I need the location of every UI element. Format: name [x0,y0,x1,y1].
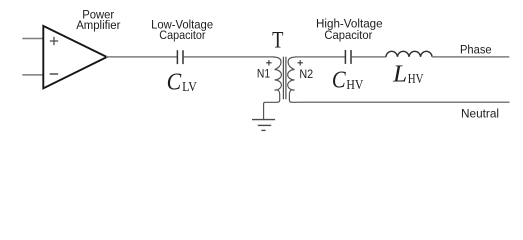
svg-text:Neutral: Neutral [461,106,499,120]
svg-text:L: L [392,61,407,88]
inductor L_HV [386,51,432,57]
transformer primary winding N1 [264,57,282,119]
wire: secondary top to C_HV [295,56,345,58]
svg-text:HV: HV [408,71,424,86]
svg-text:LV: LV [182,79,197,94]
plus sign (non-inverting input) [50,37,58,45]
svg-text:T: T [272,28,283,53]
op-amp U1 power amplifier triangle [43,26,107,88]
wire: amp output to C_LV [106,56,177,58]
wire: non-inverting input [22,38,42,40]
svg-text:Phase: Phase [460,42,492,56]
svg-text:HV: HV [346,77,363,92]
svg-text:Amplifier: Amplifier [76,18,120,32]
polarity plus N1 [266,60,271,65]
svg-text:C: C [332,66,346,93]
wire: inverting input [22,74,42,76]
capacitor C_LV plates [176,50,178,64]
svg-text:N1: N1 [257,67,270,81]
wire: C_HV to L_HV [352,56,387,58]
ground [252,120,275,131]
transformer core [282,57,284,99]
wire: neutral line [297,101,510,103]
svg-text:N2: N2 [299,67,313,81]
transformer secondary winding N2 [288,57,298,102]
capacitor C_HV plates [344,50,346,64]
polarity plus N2 [298,60,303,65]
svg-text:Capacitor: Capacitor [324,28,372,42]
svg-text:Capacitor: Capacitor [159,28,205,42]
wire: C_LV to transformer primary [184,56,275,58]
svg-text:C: C [167,69,182,96]
minus sign (inverting input) [50,73,58,75]
wire: L_HV to phase terminal [432,56,509,58]
